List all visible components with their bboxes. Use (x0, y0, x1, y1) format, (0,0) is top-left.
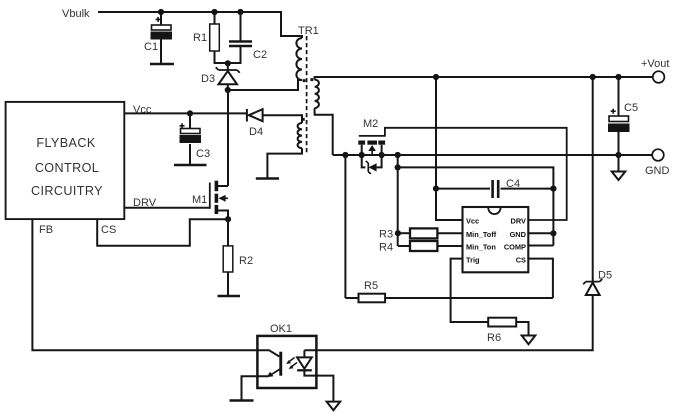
svg-text:Min_Toff: Min_Toff (466, 230, 497, 239)
svg-text:Vbulk: Vbulk (62, 8, 90, 20)
wire GND pin (528, 232, 553, 234)
ground (aux winding) (256, 177, 279, 180)
svg-text:R1: R1 (193, 32, 207, 44)
svg-text:C1: C1 (144, 41, 158, 53)
svg-text:M1: M1 (192, 194, 207, 206)
polarity mark secondary (310, 78, 313, 81)
svg-text:D3: D3 (201, 73, 215, 85)
resistor R6 (487, 318, 529, 344)
node junction rail-M2 right (379, 152, 385, 158)
secondary winding (315, 80, 319, 108)
node junction C4 left (433, 186, 439, 192)
node junction source row (395, 164, 401, 170)
resistor R2 (223, 219, 253, 296)
optocoupler OK1 (242, 323, 334, 402)
wire primary bottom lead (228, 80, 302, 90)
node junction rail-R5 (342, 152, 348, 158)
polarity mark auxiliary (302, 118, 305, 121)
terminal +Vout (641, 58, 669, 83)
svg-text:Min_Ton: Min_Ton (466, 243, 496, 252)
ground (OK1 transistor) (230, 399, 254, 402)
light arrows of OK1 (288, 358, 295, 363)
core (306, 36, 308, 155)
wire secondary bottom lead (315, 108, 333, 155)
wire Trig path (451, 259, 489, 322)
wire bottom run to D5 (304, 295, 592, 350)
svg-text:CS: CS (101, 224, 116, 236)
svg-text:TR1: TR1 (298, 25, 319, 37)
node junction rail-source row (395, 152, 401, 158)
primary winding (296, 38, 302, 80)
resistor R3 (379, 228, 463, 240)
node junction Vbulk-C1 (158, 9, 164, 15)
ground (C1) (150, 63, 174, 66)
svg-text:D4: D4 (249, 126, 263, 138)
svg-text:COMP: COMP (504, 243, 526, 252)
svg-text:DRV: DRV (511, 217, 527, 226)
node junction Vcc-C3 (187, 110, 193, 116)
wire GND rail (333, 154, 652, 156)
ground (C3) (174, 164, 207, 167)
svg-text:DRV: DRV (133, 197, 157, 209)
node D3 anode junction (225, 87, 231, 93)
node junction +Vout rail (433, 74, 439, 80)
ground (below GND rail) open triangle (612, 155, 626, 180)
svg-text:+Vout: +Vout (641, 58, 669, 70)
phototransistor of OK1 (257, 350, 279, 356)
diode D4 (247, 109, 302, 138)
wire aux bottom lead (267, 148, 302, 178)
control box U? FLYBACK CONTROL CIRCUITRY (6, 102, 125, 219)
wire vertical to R3 R4 (397, 155, 399, 246)
svg-text:Trig: Trig (466, 255, 480, 264)
LED of OK1 (303, 350, 305, 357)
svg-text:Vcc: Vcc (466, 217, 479, 226)
svg-text:C4: C4 (506, 178, 520, 190)
transistor M1 (124, 181, 228, 220)
svg-text:CONTROL: CONTROL (35, 161, 99, 175)
ground (OK1 LED) open triangle (327, 402, 341, 411)
svg-text:FB: FB (39, 224, 53, 236)
svg-text:C2: C2 (253, 49, 267, 61)
svg-text:C5: C5 (624, 102, 638, 114)
node junction rail-M2 left (359, 152, 365, 158)
capacitor C3 (180, 113, 211, 165)
wire M1 drain line (227, 90, 229, 186)
node junction Vbulk-C2 (237, 9, 243, 15)
node junction +Vout-C5 (615, 74, 621, 80)
svg-text:CS: CS (516, 255, 526, 264)
svg-text:CIRCUITRY: CIRCUITRY (31, 184, 103, 198)
svg-text:D5: D5 (598, 269, 612, 281)
svg-text:GND: GND (510, 230, 527, 239)
svg-text:OK1: OK1 (270, 323, 292, 335)
wire source row (398, 167, 554, 245)
svg-text:GND: GND (645, 165, 670, 177)
IC U1 controller (463, 207, 529, 272)
capacitor C1 (144, 12, 171, 64)
capacitor C5 (609, 77, 638, 155)
svg-text:FLYBACK: FLYBACK (36, 136, 95, 150)
node junction GND-C5 (615, 152, 621, 158)
terminal GND (645, 149, 670, 177)
capacitor C2 (228, 12, 267, 63)
polarity mark primary (303, 79, 306, 82)
node junction Vbulk-R1 (211, 9, 217, 15)
svg-text:R5: R5 (364, 280, 378, 292)
wire COMP pin (528, 245, 553, 247)
resistor R1 (193, 12, 228, 63)
node junction C4 right (550, 186, 556, 192)
svg-text:R4: R4 (379, 242, 393, 254)
ground (R6) open triangle (522, 336, 536, 345)
resistor R4 (379, 241, 463, 254)
diode D5 (zener, cathode up) (583, 77, 612, 295)
node snubber top junction (225, 60, 231, 66)
transformer TR1 (296, 25, 319, 155)
transistor M2 (358, 118, 566, 220)
node junction +Vout-D5 (590, 74, 596, 80)
wire +Vout drop to C4/Vcc (436, 77, 463, 220)
ground (R2) (218, 295, 241, 298)
svg-text:R6: R6 (487, 332, 501, 344)
body diode of M2 (362, 155, 382, 167)
wire CS path (97, 219, 228, 246)
diode D3 (zener, cathode up) (201, 63, 240, 90)
wire CS pin (528, 259, 553, 298)
node junction R3-R4 (395, 230, 401, 236)
node M1 source junction (225, 216, 231, 222)
wire FB drop (32, 219, 257, 350)
capacitor C4 (436, 178, 553, 198)
wire R5 drop (344, 155, 346, 298)
wire Vbulk rail (98, 12, 302, 38)
wire secondary top lead / +Vout rail (315, 77, 653, 80)
svg-text:C3: C3 (196, 148, 210, 160)
svg-text:R3: R3 (379, 229, 393, 241)
svg-text:R2: R2 (239, 255, 253, 267)
resistor R5 (345, 280, 553, 302)
svg-text:M2: M2 (363, 118, 378, 130)
auxiliary winding (298, 123, 302, 148)
node junction GND pin row (550, 230, 556, 236)
